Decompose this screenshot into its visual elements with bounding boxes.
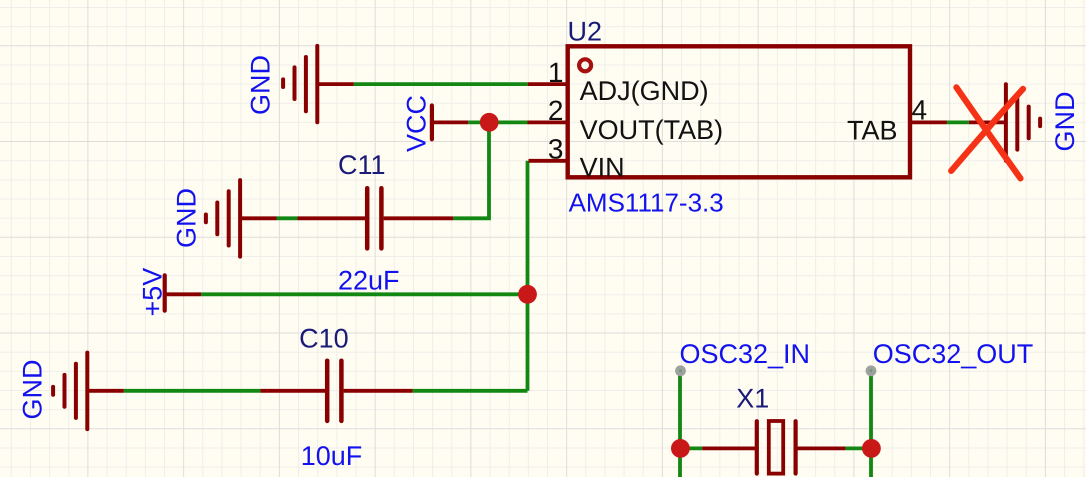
svg-text:GND: GND xyxy=(18,360,48,420)
svg-text:AMS1117-3.3: AMS1117-3.3 xyxy=(569,188,724,218)
svg-text:10uF: 10uF xyxy=(301,441,363,471)
svg-text:GND: GND xyxy=(245,55,275,115)
svg-text:GND: GND xyxy=(1050,92,1080,152)
svg-text:TAB: TAB xyxy=(847,115,898,145)
svg-text:2: 2 xyxy=(548,95,564,126)
svg-text:3: 3 xyxy=(548,134,564,165)
svg-text:C10: C10 xyxy=(299,324,349,354)
svg-text:C11: C11 xyxy=(338,150,386,180)
svg-text:X1: X1 xyxy=(736,384,769,414)
svg-text:VOUT(TAB): VOUT(TAB) xyxy=(580,115,724,145)
svg-text:22uF: 22uF xyxy=(338,265,400,295)
svg-text:+5V: +5V xyxy=(138,268,168,317)
svg-text:OSC32_OUT: OSC32_OUT xyxy=(873,339,1034,369)
svg-text:ADJ(GND): ADJ(GND) xyxy=(580,76,709,106)
svg-text:VCC: VCC xyxy=(402,95,432,152)
svg-text:VIN: VIN xyxy=(580,152,625,182)
svg-text:4: 4 xyxy=(912,95,928,126)
svg-text:U2: U2 xyxy=(568,17,603,47)
svg-text:GND: GND xyxy=(172,188,202,248)
svg-text:OSC32_IN: OSC32_IN xyxy=(680,339,811,369)
svg-text:1: 1 xyxy=(548,57,564,88)
